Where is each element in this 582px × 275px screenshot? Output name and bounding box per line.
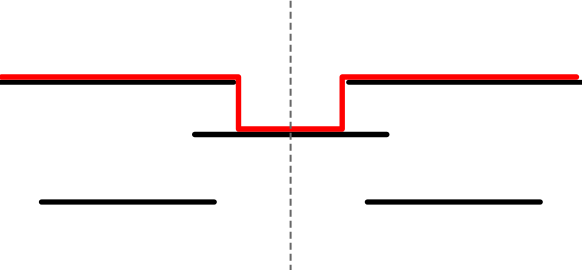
- upper-left level line: [0, 80, 234, 85]
- upper-right level line: [349, 80, 582, 85]
- red stepped band-edge trace: [2, 77, 577, 129]
- lower-right level line: [367, 199, 540, 204]
- dashed vertical center line: [290, 1, 292, 270]
- lower-left level line: [42, 199, 215, 204]
- middle well level line: [195, 132, 387, 137]
